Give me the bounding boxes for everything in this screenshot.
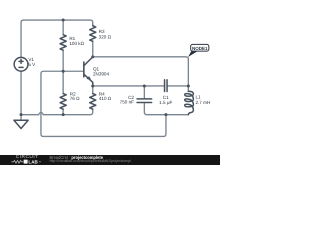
inductor L1 bbox=[185, 91, 194, 114]
wire C2 stubs bbox=[144, 86, 147, 115]
wire collector to NODE1 corner and down bbox=[93, 57, 189, 86]
transistor Q1 collector lead bbox=[84, 57, 93, 66]
capacitor C2 bbox=[137, 99, 152, 103]
node feedback riser bbox=[164, 113, 167, 116]
transistor Q1 emitter arrow bbox=[87, 77, 91, 80]
wire V1 bottom to ground bbox=[20, 71, 22, 120]
resistor R3 bbox=[90, 26, 96, 42]
node R2 bottom bbox=[62, 113, 65, 116]
footer text bbox=[50, 155, 103, 160]
node base bbox=[62, 70, 65, 73]
wire base lead bbox=[63, 70, 84, 72]
svg-text:C2750 nF: C2750 nF bbox=[120, 95, 135, 105]
wire R3 leads bbox=[92, 41, 94, 57]
svg-text:R1100 kΩ: R1100 kΩ bbox=[69, 36, 84, 46]
node L1 top bbox=[187, 84, 190, 87]
wire L1 leads bbox=[187, 86, 189, 91]
node C2 top bbox=[143, 84, 146, 87]
svg-text:Q12N3904: Q12N3904 bbox=[93, 67, 110, 77]
svg-text:LAB: LAB bbox=[28, 160, 38, 165]
svg-text:C11.5 μF: C11.5 μF bbox=[159, 95, 172, 105]
wire right rail bbox=[147, 114, 189, 116]
transistor Q1 base bar bbox=[83, 62, 85, 77]
footer bar bbox=[0, 155, 220, 165]
footer logo CIRCUIT LAB bbox=[16, 155, 39, 160]
node collector bbox=[91, 55, 94, 58]
svg-text:R3320 Ω: R3320 Ω bbox=[99, 29, 112, 40]
wire left rail with hop bbox=[21, 109, 93, 115]
ground bbox=[14, 120, 28, 128]
NODE1 flag bbox=[188, 44, 209, 57]
node emitter bbox=[91, 84, 94, 87]
svg-text:V15 V: V15 V bbox=[28, 57, 36, 67]
transistor Q1 emitter lead bbox=[84, 74, 93, 86]
svg-text:NODE1: NODE1 bbox=[192, 46, 208, 51]
resistor R4 bbox=[90, 94, 96, 110]
resistor R1 bbox=[60, 35, 66, 51]
capacitor C1 bbox=[165, 80, 168, 92]
wire R2 leads bbox=[62, 71, 64, 114]
wire emitter row bbox=[93, 85, 165, 87]
wire C1 to L1 bbox=[167, 85, 188, 87]
svg-text:L12.7 mH: L12.7 mH bbox=[195, 95, 210, 106]
wire feedback loop bbox=[41, 71, 166, 136]
node ground rail bbox=[20, 113, 23, 116]
wire R4 lead bbox=[92, 86, 94, 94]
wire R1 leads bbox=[62, 20, 64, 71]
node top rail R1 bbox=[62, 19, 65, 22]
wire top rail bbox=[21, 20, 93, 57]
svg-text:R276 Ω: R276 Ω bbox=[70, 91, 80, 101]
voltage source V1 bbox=[14, 57, 28, 71]
resistor R2 bbox=[60, 94, 66, 110]
svg-text:R4410 Ω: R4410 Ω bbox=[99, 91, 112, 101]
